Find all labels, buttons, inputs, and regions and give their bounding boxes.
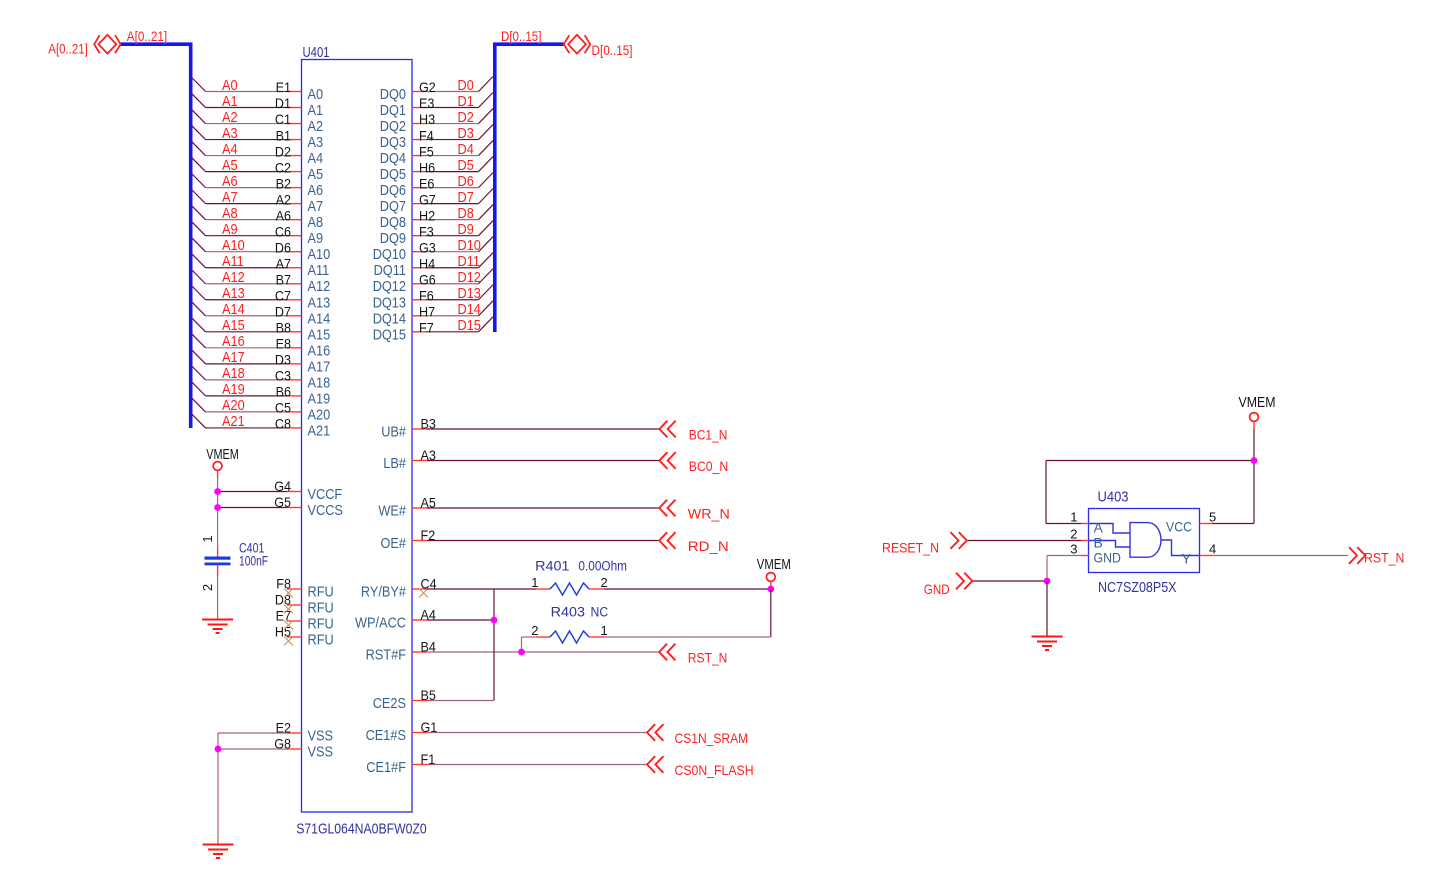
svg-text:F3: F3 [419, 223, 434, 239]
svg-text:C7: C7 [275, 287, 291, 303]
svg-text:NC7SZ08P5X: NC7SZ08P5X [1098, 579, 1177, 596]
svg-text:A8: A8 [222, 205, 238, 222]
svg-text:A20: A20 [308, 406, 331, 423]
svg-text:RFU: RFU [308, 632, 334, 649]
svg-text:100nF: 100nF [239, 554, 268, 569]
svg-text:A15: A15 [308, 326, 331, 343]
svg-text:A1: A1 [308, 102, 324, 119]
svg-text:VMEM: VMEM [206, 446, 239, 463]
svg-text:A0: A0 [308, 86, 324, 103]
svg-text:VSS: VSS [308, 728, 334, 745]
svg-text:D2: D2 [275, 143, 291, 159]
svg-text:4: 4 [1209, 542, 1216, 557]
svg-text:A6: A6 [222, 173, 238, 190]
svg-text:D1: D1 [275, 95, 291, 111]
svg-text:D15: D15 [458, 317, 481, 334]
svg-text:A19: A19 [308, 390, 331, 407]
svg-text:H7: H7 [419, 303, 435, 319]
svg-text:RST_N: RST_N [1364, 550, 1404, 566]
svg-text:DQ5: DQ5 [380, 166, 406, 183]
svg-text:CS0N_FLASH: CS0N_FLASH [675, 762, 754, 778]
svg-text:E3: E3 [419, 95, 435, 111]
svg-text:R403: R403 [551, 604, 585, 619]
svg-text:B: B [1094, 535, 1103, 551]
svg-text:CE2S: CE2S [373, 695, 406, 712]
svg-text:A13: A13 [308, 294, 331, 311]
svg-text:A7: A7 [276, 255, 292, 271]
svg-text:F8: F8 [276, 576, 291, 592]
svg-text:A16: A16 [308, 342, 331, 359]
svg-text:BC0_N: BC0_N [689, 458, 729, 474]
svg-text:H6: H6 [419, 159, 435, 175]
svg-text:CE1#S: CE1#S [366, 727, 406, 744]
svg-text:OE#: OE# [381, 535, 407, 552]
svg-text:A2: A2 [308, 118, 324, 135]
svg-text:RST#F: RST#F [366, 647, 406, 664]
svg-text:U401: U401 [303, 44, 330, 61]
svg-text:A21: A21 [222, 413, 245, 430]
svg-text:Y: Y [1182, 550, 1192, 566]
svg-text:DQ10: DQ10 [373, 246, 406, 263]
svg-text:B2: B2 [276, 175, 292, 191]
svg-text:A14: A14 [308, 310, 331, 327]
svg-text:D9: D9 [458, 221, 474, 238]
svg-text:F5: F5 [419, 143, 434, 159]
svg-text:A[0..21]: A[0..21] [127, 28, 167, 44]
svg-text:NC: NC [591, 604, 609, 619]
svg-text:A7: A7 [222, 189, 238, 206]
svg-text:DQ3: DQ3 [380, 134, 406, 151]
svg-text:A21: A21 [308, 422, 331, 439]
svg-text:D13: D13 [458, 285, 481, 302]
svg-text:DQ11: DQ11 [374, 262, 406, 279]
svg-text:DQ8: DQ8 [380, 214, 406, 231]
svg-text:A3: A3 [308, 134, 324, 151]
svg-text:D10: D10 [458, 237, 481, 254]
svg-text:D4: D4 [458, 141, 474, 158]
svg-text:VMEM: VMEM [757, 556, 791, 573]
svg-text:5: 5 [1209, 510, 1216, 525]
svg-text:A2: A2 [222, 109, 238, 126]
svg-text:E6: E6 [419, 175, 435, 191]
svg-text:RST_N: RST_N [688, 649, 728, 665]
svg-text:D12: D12 [458, 269, 481, 286]
svg-text:2: 2 [200, 584, 215, 591]
svg-text:GND: GND [924, 581, 950, 597]
svg-text:D0: D0 [458, 77, 474, 94]
svg-text:H4: H4 [419, 255, 435, 271]
svg-text:VMEM: VMEM [1239, 394, 1276, 411]
svg-text:WP/ACC: WP/ACC [355, 615, 406, 632]
svg-text:D[0..15]: D[0..15] [501, 28, 541, 44]
svg-text:VCCS: VCCS [308, 502, 343, 519]
svg-text:RD_N: RD_N [688, 538, 729, 554]
svg-text:D[0..15]: D[0..15] [592, 42, 633, 58]
svg-text:A5: A5 [222, 157, 238, 174]
svg-text:A11: A11 [308, 262, 330, 279]
svg-text:A10: A10 [308, 246, 331, 263]
svg-text:WE#: WE# [378, 503, 406, 520]
svg-text:3: 3 [1070, 542, 1077, 557]
svg-text:C6: C6 [275, 223, 291, 239]
svg-text:A2: A2 [276, 191, 292, 207]
svg-text:DQ4: DQ4 [380, 150, 406, 167]
svg-text:F6: F6 [419, 287, 434, 303]
svg-text:C5: C5 [275, 400, 291, 416]
svg-text:H2: H2 [419, 207, 435, 223]
svg-text:A6: A6 [308, 182, 324, 199]
svg-text:CS1N_SRAM: CS1N_SRAM [675, 730, 749, 746]
svg-text:B8: B8 [276, 320, 292, 336]
svg-text:DQ2: DQ2 [380, 118, 406, 135]
svg-text:DQ14: DQ14 [373, 310, 406, 327]
svg-text:D11: D11 [458, 253, 480, 270]
svg-text:A12: A12 [222, 269, 245, 286]
svg-text:VSS: VSS [308, 744, 334, 761]
svg-text:A18: A18 [308, 374, 331, 391]
svg-text:DQ6: DQ6 [380, 182, 406, 199]
svg-text:C3: C3 [275, 368, 291, 384]
svg-text:A19: A19 [222, 381, 245, 398]
svg-text:DQ1: DQ1 [380, 102, 406, 119]
svg-text:A17: A17 [308, 358, 331, 375]
svg-text:VCC: VCC [1166, 519, 1192, 535]
svg-text:A17: A17 [222, 349, 245, 366]
svg-text:CE1#F: CE1#F [366, 759, 406, 776]
svg-text:1: 1 [531, 575, 538, 590]
svg-text:A4: A4 [222, 141, 238, 158]
svg-text:A13: A13 [222, 285, 245, 302]
svg-text:A7: A7 [308, 198, 324, 215]
svg-text:A16: A16 [222, 333, 245, 350]
svg-text:D14: D14 [458, 301, 481, 318]
svg-text:D7: D7 [458, 189, 474, 206]
svg-text:E8: E8 [276, 336, 292, 352]
svg-text:1: 1 [1070, 510, 1077, 525]
svg-text:C8: C8 [275, 416, 291, 432]
svg-text:D7: D7 [275, 303, 291, 319]
svg-text:A3: A3 [222, 125, 238, 142]
svg-text:VCCF: VCCF [308, 486, 343, 503]
svg-text:A[0..21]: A[0..21] [48, 40, 88, 56]
svg-text:H3: H3 [419, 111, 435, 127]
svg-text:DQ13: DQ13 [373, 294, 406, 311]
svg-text:C2: C2 [275, 159, 291, 175]
svg-text:C1: C1 [275, 111, 291, 127]
svg-text:E1: E1 [276, 79, 292, 95]
svg-text:B7: B7 [276, 271, 292, 287]
svg-text:DQ0: DQ0 [380, 86, 406, 103]
svg-text:D3: D3 [458, 125, 474, 142]
svg-text:G2: G2 [419, 79, 436, 95]
svg-text:A6: A6 [276, 207, 292, 223]
svg-text:DQ15: DQ15 [373, 326, 406, 343]
svg-text:DQ9: DQ9 [380, 230, 406, 247]
svg-text:B6: B6 [276, 384, 292, 400]
svg-text:0.00Ohm: 0.00Ohm [578, 558, 627, 573]
svg-text:R401: R401 [535, 558, 569, 573]
svg-text:D6: D6 [275, 239, 291, 255]
svg-text:D1: D1 [458, 93, 474, 110]
svg-text:G3: G3 [419, 239, 436, 255]
svg-text:2: 2 [601, 575, 608, 590]
svg-text:A8: A8 [308, 214, 324, 231]
svg-text:2: 2 [531, 623, 538, 638]
svg-text:1: 1 [200, 535, 215, 542]
svg-text:B1: B1 [276, 127, 292, 143]
svg-text:D2: D2 [458, 109, 474, 126]
svg-text:DQ7: DQ7 [380, 198, 406, 215]
svg-text:A1: A1 [222, 93, 238, 110]
svg-text:F7: F7 [419, 320, 434, 336]
svg-text:DQ12: DQ12 [373, 278, 406, 295]
svg-text:RFU: RFU [308, 600, 334, 617]
svg-text:A15: A15 [222, 317, 245, 334]
svg-text:A5: A5 [308, 166, 324, 183]
svg-text:LB#: LB# [383, 455, 406, 472]
svg-text:A20: A20 [222, 397, 245, 414]
svg-text:2: 2 [1070, 527, 1077, 542]
svg-text:A18: A18 [222, 365, 245, 382]
svg-text:BC1_N: BC1_N [689, 426, 728, 442]
svg-text:D5: D5 [458, 157, 474, 174]
svg-text:F4: F4 [419, 127, 434, 143]
svg-text:RY/BY#: RY/BY# [361, 584, 407, 601]
svg-text:WR_N: WR_N [688, 505, 730, 521]
svg-text:RFU: RFU [308, 584, 334, 601]
svg-text:RFU: RFU [308, 616, 334, 633]
svg-text:A11: A11 [222, 253, 244, 270]
svg-text:G6: G6 [419, 271, 436, 287]
svg-text:G7: G7 [419, 191, 436, 207]
svg-text:UB#: UB# [381, 424, 406, 441]
svg-text:A9: A9 [222, 221, 238, 238]
svg-text:A14: A14 [222, 301, 245, 318]
svg-text:RESET_N: RESET_N [882, 539, 939, 555]
svg-text:GND: GND [1094, 550, 1121, 566]
svg-text:A4: A4 [308, 150, 324, 167]
svg-text:D8: D8 [458, 205, 474, 222]
svg-text:A12: A12 [308, 278, 331, 295]
svg-text:S71GL064NA0BFW0Z0: S71GL064NA0BFW0Z0 [296, 821, 427, 838]
svg-text:A9: A9 [308, 230, 324, 247]
svg-text:D3: D3 [275, 352, 291, 368]
svg-text:A10: A10 [222, 237, 245, 254]
svg-text:1: 1 [601, 623, 608, 638]
svg-text:D6: D6 [458, 173, 474, 190]
svg-text:U403: U403 [1098, 489, 1129, 506]
svg-text:A0: A0 [222, 77, 238, 94]
svg-text:A: A [1094, 520, 1104, 536]
